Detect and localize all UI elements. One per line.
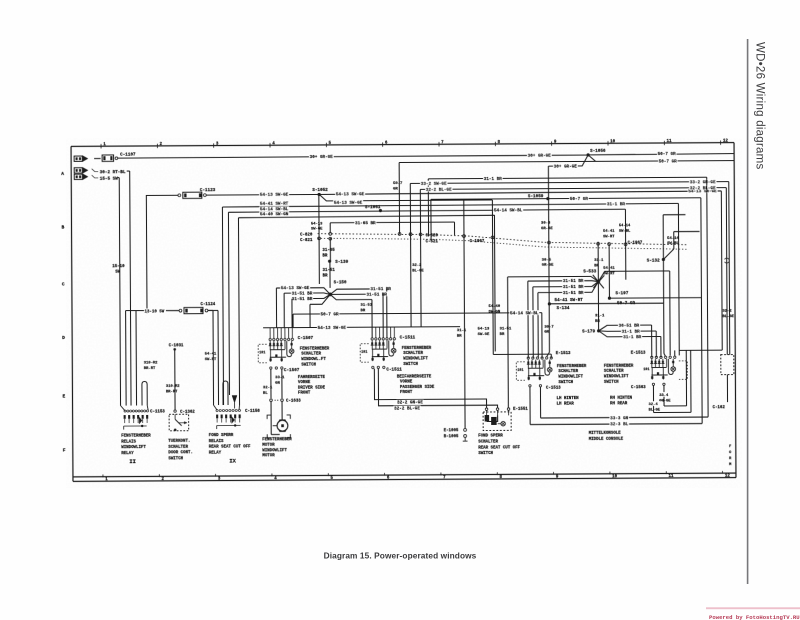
- svg-text:C-1153: C-1153: [150, 411, 165, 415]
- svg-text:310-R2: 310-R2: [166, 385, 180, 389]
- wire 15-5 SW: [100, 176, 121, 405]
- svg-text:30-2 RT-BL: 30-2 RT-BL: [100, 170, 126, 175]
- wire 31-1 BR long vertical: [456, 199, 467, 429]
- rear seat relay IX contact set: [216, 414, 241, 429]
- window motor text: [262, 438, 292, 458]
- svg-text:54-41 SW-RT: 54-41 SW-RT: [260, 202, 289, 207]
- FORD vertical marking: [729, 445, 732, 467]
- wire 50-7 GR drop at x 400: [393, 162, 403, 233]
- svg-text:SCHALTER: SCHALTER: [558, 370, 578, 374]
- svg-text:SW-RT: SW-RT: [205, 358, 217, 362]
- svg-text:GR-GE: GR-GE: [542, 264, 554, 268]
- svg-text:C-1507: C-1507: [298, 336, 314, 341]
- svg-text:SW-RT: SW-RT: [603, 235, 615, 239]
- svg-text:C-1124: C-1124: [200, 303, 215, 307]
- LH rear switch pins E-1513: [527, 313, 571, 360]
- svg-text:B: B: [62, 224, 65, 230]
- svg-text:WINDOWLIFT: WINDOWLIFT: [604, 375, 629, 379]
- svg-text:54-13 SW-GE: 54-13 SW-GE: [260, 193, 289, 198]
- svg-text:31-1: 31-1: [594, 259, 604, 263]
- svg-text:C-820: C-820: [426, 234, 439, 238]
- splice junction S-150: [328, 281, 347, 297]
- svg-text:BL-GE: BL-GE: [649, 408, 661, 412]
- svg-text:FENSTERHEBER: FENSTERHEBER: [557, 365, 587, 369]
- svg-text:E-1513: E-1513: [631, 352, 646, 356]
- svg-text:D: D: [62, 335, 65, 341]
- svg-text:10: 10: [610, 140, 616, 144]
- svg-text:FRONT: FRONT: [400, 391, 413, 395]
- svg-text:32-2 BL-GE: 32-2 BL-GE: [690, 186, 716, 191]
- svg-text:C-162: C-162: [713, 406, 726, 410]
- switch C-1511 name text: [402, 347, 432, 367]
- svg-text:WINDOWLIFT: WINDOWLIFT: [262, 449, 287, 453]
- wire 54-13 SW-GE right corner to RH: [679, 349, 722, 351]
- windowlift relay II contact set: [124, 415, 149, 430]
- svg-text:54-14: 54-14: [619, 224, 631, 228]
- svg-text:BR: BR: [322, 254, 327, 258]
- svg-text:50-7 GR: 50-7 GR: [570, 197, 588, 202]
- wire 54-41 SW-RT / 31-1 BR bus: [222, 198, 679, 405]
- svg-text:BR: BR: [323, 274, 328, 278]
- svg-text:DRIVER SIDE: DRIVER SIDE: [298, 386, 326, 390]
- svg-text:30-5: 30-5: [542, 258, 552, 262]
- RH rear switch body: [650, 359, 675, 380]
- wire 50-7 GR middle: [293, 310, 542, 359]
- svg-text:E-1005: E-1005: [444, 429, 459, 433]
- switch C-1507 dashed harness bracket: [258, 344, 267, 363]
- svg-text:FENSTERHEBER: FENSTERHEBER: [300, 347, 330, 351]
- svg-text:31-65 BR: 31-65 BR: [355, 221, 376, 226]
- wire to fuse C-1123: [146, 195, 178, 313]
- in-line connectors C-820 C-821: [300, 232, 332, 243]
- svg-text:BR: BR: [595, 320, 600, 324]
- label 54-41 SW-RT on vertical: [603, 230, 615, 239]
- svg-text:101: 101: [259, 351, 265, 355]
- terminal E-1005 B-1005: [444, 428, 468, 441]
- connector label C-1511: [400, 336, 416, 341]
- switch C-1511 dashed harness bracket: [360, 344, 369, 363]
- wire 13-10 SW with fuse C-1124: [126, 303, 219, 405]
- wire 54-13 SW-GE fan left 1: [276, 285, 330, 328]
- bulkhead dotted connector row upper: [318, 232, 688, 247]
- RH rear switch name text: [604, 365, 634, 385]
- svg-text:33-4: 33-4: [659, 394, 669, 398]
- svg-text:32-2: 32-2: [412, 264, 422, 268]
- rear cutoff switch body: [483, 410, 511, 430]
- svg-text:S-197: S-197: [615, 291, 628, 296]
- wire 54-13 SW-GE right of S-1052: [319, 188, 722, 352]
- svg-text:30+ GR-GE: 30+ GR-GE: [554, 165, 578, 170]
- svg-text:MITTELKONSOLE: MITTELKONSOLE: [589, 432, 622, 436]
- svg-text:S-134: S-134: [556, 306, 569, 311]
- svg-text:FRONT: FRONT: [298, 392, 311, 396]
- door contact switch body dashed: [169, 414, 189, 431]
- wire 31-51 BR vertical: [323, 261, 336, 288]
- svg-text:SCHALTER: SCHALTER: [403, 352, 423, 356]
- svg-text:31-51: 31-51: [323, 269, 336, 273]
- svg-text:33-2 GN-GE: 33-2 GN-GE: [690, 180, 716, 185]
- wire 31-51 BR S-533 fan 3: [538, 282, 599, 358]
- window switch C-1511 pins bottom: [372, 366, 403, 372]
- left grid row letters A-F: [61, 171, 66, 454]
- connector C-1031 splice: [169, 344, 185, 409]
- window switch C-1507 pins bottom: [270, 367, 300, 373]
- svg-text:BR-RT: BR-RT: [144, 367, 156, 371]
- wire 31-51 BR fan right lower: [330, 294, 373, 338]
- svg-text:32-3 BL: 32-3 BL: [610, 422, 628, 427]
- svg-text:SW-GE: SW-GE: [478, 333, 490, 337]
- wire 30+ GR-GE top bus: [118, 152, 588, 161]
- rear cutoff switch text: [478, 435, 520, 457]
- splice S-132 with diagonal: [646, 215, 700, 304]
- svg-text:31-51 BR: 31-51 BR: [366, 292, 387, 297]
- svg-text:SWITCH: SWITCH: [478, 452, 493, 456]
- svg-text:TUERKONT.: TUERKONT.: [168, 440, 190, 444]
- relay II roman numeral: [129, 459, 136, 465]
- wire 50-7 GR with splice S-1059: [431, 193, 701, 241]
- page edge divider line: [747, 39, 749, 584]
- wire 54-40 SW-GN vertical right: [488, 305, 500, 314]
- svg-text:31-1 BR: 31-1 BR: [484, 177, 502, 182]
- svg-text:36-51 BR: 36-51 BR: [619, 324, 640, 329]
- svg-text:32-4: 32-4: [649, 403, 659, 407]
- switch C-1507 name text: [300, 347, 330, 367]
- svg-text:54-13 SW-GE: 54-13 SW-GE: [334, 201, 363, 206]
- wire 54-13 SW-GE to splice S-1052: [206, 191, 319, 198]
- wire 31-51 BR vertical feed: [500, 327, 512, 336]
- svg-text:C-1158: C-1158: [245, 410, 260, 414]
- svg-text:SW: SW: [115, 270, 120, 274]
- svg-text:S-1059: S-1059: [528, 194, 544, 199]
- svg-text:SCHALTER: SCHALTER: [301, 353, 321, 357]
- wire 33-4 GN-GE loop: [658, 350, 686, 406]
- svg-text:SW-GE: SW-GE: [311, 228, 323, 232]
- svg-text:WINDOWLIFT: WINDOWLIFT: [121, 446, 146, 450]
- svg-text:101: 101: [643, 368, 649, 372]
- svg-text:A: A: [61, 171, 64, 177]
- svg-text:BL: BL: [263, 392, 268, 396]
- svg-text:101: 101: [361, 350, 367, 354]
- svg-text:S-533: S-533: [583, 269, 596, 274]
- relay IX roman numeral: [229, 458, 236, 464]
- svg-text:54-14 SW-BL: 54-14 SW-BL: [510, 311, 539, 316]
- svg-text:S-139: S-139: [335, 260, 348, 265]
- svg-text:SWITCH: SWITCH: [558, 381, 573, 385]
- svg-text:30-7: 30-7: [544, 325, 554, 329]
- splice S-179 fan: [582, 323, 661, 358]
- windowlift relay II pin row C-1153: [124, 410, 165, 415]
- svg-text:VORNE: VORNE: [298, 381, 311, 385]
- svg-text:FOND SPERR: FOND SPERR: [209, 434, 234, 438]
- door contact switch text: [168, 440, 193, 462]
- svg-text:C-821: C-821: [300, 239, 313, 243]
- svg-text:WINDOWLIFT: WINDOWLIFT: [403, 357, 428, 361]
- svg-text:SW-BL: SW-BL: [619, 229, 631, 233]
- in-line connectors C-820 C-521 middle: [398, 232, 438, 244]
- svg-text:WD•26 Wiring diagrams: WD•26 Wiring diagrams: [754, 42, 766, 170]
- LH rear switch name text: [557, 365, 587, 385]
- svg-text:RELAIS: RELAIS: [121, 440, 136, 444]
- power feed connector arrow 1: [74, 156, 101, 162]
- svg-text:F: F: [729, 445, 731, 449]
- svg-text:FENSTERHEBER: FENSTERHEBER: [121, 434, 151, 438]
- svg-text:GN: GN: [275, 381, 280, 385]
- svg-text:10: 10: [612, 475, 618, 479]
- driver side location text: [298, 376, 326, 396]
- rear seat relay IX pin row C-1158: [216, 409, 260, 414]
- fuse C-1123: [178, 188, 216, 199]
- svg-text:31-51 BR: 31-51 BR: [563, 291, 584, 296]
- svg-text:REAR SEAT CUT OFF: REAR SEAT CUT OFF: [478, 446, 520, 450]
- bottom ruler scale numbers 1-12: [103, 471, 730, 482]
- LH rear switch dashed bracket: [516, 362, 525, 381]
- svg-text:E-1551: E-1551: [513, 408, 528, 412]
- inline connector on 32-2 wire: [725, 258, 729, 263]
- in-line connector C-1967 right: [624, 241, 643, 245]
- svg-text:BL-GE: BL-GE: [412, 269, 424, 273]
- svg-text:31-51: 31-51: [500, 327, 512, 331]
- wire 54-13 SW-GE lower branch: [319, 193, 493, 355]
- drawing frame border: [71, 143, 736, 482]
- RH rear switch feed wire: [674, 350, 676, 356]
- svg-text:31-51 BR: 31-51 BR: [292, 297, 313, 302]
- label 310-R2 BR-RT lower: [166, 385, 180, 394]
- svg-text:12: 12: [725, 475, 731, 479]
- wire 30+ GR-GE branch to vertical: [548, 155, 588, 170]
- svg-text:GR: GR: [544, 331, 549, 335]
- svg-text:S-150: S-150: [334, 281, 347, 286]
- wire 31-65 BR: [330, 220, 454, 237]
- svg-text:FENSTERHEBER: FENSTERHEBER: [604, 365, 634, 369]
- power feed connector arrow 2: [74, 167, 98, 173]
- svg-text:32-2 GN-GE: 32-2 GN-GE: [397, 401, 423, 406]
- wire 54-41 SW-RT from S-533: [598, 266, 670, 355]
- label 32-2 BL-GE on left verticals: [412, 264, 424, 273]
- svg-text:54-41: 54-41: [603, 230, 615, 234]
- wire 31-1 BR bus: [428, 175, 707, 237]
- svg-text:Powered by FotoHostingTV.RU: Powered by FotoHostingTV.RU: [709, 614, 800, 620]
- svg-text:WINDOWLIFT: WINDOWLIFT: [558, 375, 583, 379]
- svg-text:101: 101: [517, 369, 523, 373]
- svg-text:BEIFAHRERSEITE: BEIFAHRERSEITE: [397, 375, 432, 379]
- splice S-533 junction: [583, 242, 605, 331]
- LH rear switch pins bottom C-1513: [529, 384, 561, 390]
- svg-text:SW-GN: SW-GN: [489, 310, 501, 314]
- svg-text:S-1061: S-1061: [365, 205, 381, 210]
- wire 54-13 SW-GE switch bus: [263, 324, 460, 331]
- svg-text:50-7 GR: 50-7 GR: [321, 312, 339, 317]
- relay IX feed funnel: [213, 310, 240, 410]
- svg-text:F: F: [63, 447, 66, 453]
- window switch C-1507 body: [269, 341, 294, 362]
- svg-text:S-1052: S-1052: [312, 188, 328, 193]
- splice S-1056: [586, 149, 606, 157]
- svg-text:32-2: 32-2: [723, 310, 733, 314]
- RH rear switch pins E-1513: [631, 352, 676, 359]
- connector C-162 dashed: [712, 310, 735, 410]
- label 15-10 SW on vertical wire: [112, 265, 125, 274]
- window switch C-1507 pins top: [269, 328, 294, 341]
- svg-text:33-3 GN: 33-3 GN: [610, 416, 628, 421]
- svg-text:C-1507: C-1507: [284, 368, 300, 373]
- splice S-1061: [365, 205, 382, 212]
- svg-text:31-1 BR: 31-1 BR: [622, 330, 640, 335]
- wire fan left 4: [310, 294, 330, 327]
- svg-text:310-R2: 310-R2: [144, 361, 158, 365]
- svg-text:54-14: 54-14: [667, 237, 679, 241]
- svg-text:BR: BR: [457, 334, 462, 338]
- svg-text:C-1031: C-1031: [169, 344, 184, 348]
- svg-text:33-2 SW-GE: 33-2 SW-GE: [421, 182, 447, 187]
- wire 32-4 BL-GE loop: [648, 350, 691, 412]
- wire 33-3 GN console: [539, 177, 708, 421]
- svg-text:30+ GR-GE: 30+ GR-GE: [310, 155, 334, 160]
- svg-text:MOTOR: MOTOR: [262, 444, 275, 448]
- svg-text:54-40: 54-40: [488, 305, 500, 309]
- wire 30-3 GR-GE long vertical: [541, 166, 555, 357]
- wire 32-1 BL to motor: [263, 369, 282, 398]
- svg-text:31-51: 31-51: [360, 304, 372, 308]
- svg-text:33-1: 33-1: [275, 376, 285, 380]
- window switch C-1511 pins top: [371, 327, 396, 340]
- svg-text:C: C: [62, 281, 65, 287]
- wire 31-1 BR vertical to S-179: [595, 314, 605, 323]
- relay IX feed arrow: [232, 395, 237, 408]
- label 54-14 SW-BL on vertical: [619, 224, 631, 233]
- svg-text:SW-BL: SW-BL: [667, 242, 679, 246]
- svg-text:BR: BR: [500, 333, 505, 337]
- svg-text:LH REAR: LH REAR: [557, 402, 575, 406]
- svg-text:M: M: [729, 463, 731, 467]
- wire to LH rear switch top: [493, 354, 551, 358]
- svg-text:FOND SPERR: FOND SPERR: [478, 435, 503, 439]
- svg-text:C-1563: C-1563: [631, 386, 646, 390]
- svg-text:30-3: 30-3: [541, 222, 551, 226]
- svg-text:RELAY: RELAY: [121, 452, 134, 456]
- fuse C-1107: [102, 153, 136, 162]
- svg-text:RH REAR: RH REAR: [610, 402, 628, 406]
- svg-text:32-1: 32-1: [263, 386, 273, 390]
- wire 50-7 GR right of S-1056: [588, 151, 734, 158]
- wire 31-51 BR fan right middle: [330, 292, 388, 339]
- wire 31-51 BR S-533 fan 0: [508, 276, 599, 407]
- svg-text:WINDOWL.FT: WINDOWL.FT: [301, 358, 326, 362]
- svg-text:RELAY: RELAY: [209, 451, 222, 455]
- svg-text:B-1005: B-1005: [444, 435, 459, 439]
- svg-text:13-10 SW: 13-10 SW: [144, 310, 164, 314]
- wire 33-2 SW-GE / 33-2 GN-GE bus: [410, 179, 730, 356]
- svg-text:IX: IX: [229, 458, 236, 464]
- svg-text:31-51 BR: 31-51 BR: [563, 285, 584, 290]
- wire 31-51 BR fan right upper: [330, 286, 392, 338]
- label 310-R2 BR-RT upper: [144, 361, 158, 370]
- svg-text:GR-GE: GR-GE: [541, 227, 553, 231]
- svg-text:S-1056: S-1056: [590, 149, 606, 154]
- connector label C-1507: [298, 336, 314, 341]
- svg-text:50-7: 50-7: [393, 182, 403, 186]
- svg-text:SWITCH: SWITCH: [604, 381, 619, 385]
- wire 54-40 SW-GN bus: [238, 210, 495, 405]
- wire 32-2 BL-GE bus: [420, 185, 727, 356]
- svg-text:MIDDLE CONSOLE: MIDDLE CONSOLE: [589, 438, 624, 442]
- svg-text:54-13 SW-GE: 54-13 SW-GE: [318, 326, 347, 331]
- wire 31-51 BR S-533 fan 2: [533, 282, 599, 358]
- svg-text:C-1123: C-1123: [200, 188, 216, 193]
- LH rear switch body: [527, 360, 552, 381]
- svg-text:C-1513: C-1513: [546, 386, 561, 390]
- wire 32-2 GN-GE from passenger switch: [374, 368, 486, 408]
- svg-text:11: 11: [668, 475, 674, 479]
- svg-text:C-1967: C-1967: [470, 240, 485, 244]
- window switch C-1511 body: [371, 340, 396, 361]
- svg-text:RH HINTEN: RH HINTEN: [610, 397, 633, 401]
- svg-text:SWITCH: SWITCH: [403, 363, 418, 367]
- svg-text:SCHALTER: SCHALTER: [168, 446, 188, 450]
- passenger side location text: [397, 375, 435, 395]
- watermark band: [706, 607, 800, 609]
- svg-text:54-13 SW-GE: 54-13 SW-GE: [336, 192, 365, 197]
- window motor M body: [271, 402, 288, 435]
- svg-text:15-5 SW: 15-5 SW: [100, 176, 118, 181]
- svg-text:C-1511: C-1511: [386, 367, 402, 372]
- wire from S-1052 down: [311, 194, 324, 284]
- svg-text:31-51 BR: 31-51 BR: [563, 279, 584, 284]
- door contact switch pin: [174, 410, 196, 415]
- wire 30-2 RT-BL: [100, 170, 131, 406]
- svg-text:S-132: S-132: [647, 258, 660, 263]
- wire 31-65 BR vertical below connectors: [322, 238, 335, 261]
- svg-text:54-41 SW-RT: 54-41 SW-RT: [554, 298, 583, 303]
- wire 54-13 SW-GE vertical label: [478, 327, 490, 336]
- svg-text:S-179: S-179: [582, 329, 595, 334]
- svg-text:E-1513: E-1513: [556, 352, 571, 356]
- svg-text:31-1: 31-1: [595, 314, 605, 318]
- wire 32-3 BL console: [529, 198, 702, 428]
- svg-text:54-41: 54-41: [205, 353, 217, 357]
- svg-text:PASSENGER SIDE: PASSENGER SIDE: [400, 386, 435, 390]
- LH rear switch bottom wires: [530, 387, 541, 425]
- LH rear switch feed wires: [527, 356, 529, 358]
- splice S-197 and wire 50-7 GR: [608, 243, 702, 306]
- svg-text:BR: BR: [594, 264, 599, 268]
- svg-text:SWITCH: SWITCH: [168, 457, 183, 461]
- svg-text:54-40 SW-GN: 54-40 SW-GN: [260, 212, 289, 217]
- svg-text:30+ GR-GE: 30+ GR-GE: [528, 154, 552, 159]
- RH rear location text: [610, 397, 633, 407]
- wire 54-14 SW-BL bus: [228, 205, 626, 395]
- RH rear switch dashed bracket: [643, 361, 687, 380]
- svg-text:31-1 BR: 31-1 BR: [607, 202, 625, 207]
- svg-text:50-7 GR: 50-7 GR: [658, 152, 676, 157]
- wire 31-51 BR S-533 fan 1: [528, 278, 599, 358]
- svg-text:SWITCH: SWITCH: [301, 363, 316, 367]
- svg-text:C-1107: C-1107: [120, 153, 136, 158]
- svg-text:SCHALTER: SCHALTER: [604, 370, 624, 374]
- svg-text:FENSTERHEBER: FENSTERHEBER: [262, 438, 292, 442]
- console location text: [589, 432, 624, 442]
- RH rear switch pins bottom C-1563: [631, 383, 665, 390]
- svg-text:54-13: 54-13: [478, 327, 490, 331]
- svg-text:MOTOR: MOTOR: [262, 454, 275, 458]
- svg-text:RELAIS: RELAIS: [209, 440, 224, 444]
- svg-text:FAHRERSEITE: FAHRERSEITE: [298, 376, 326, 380]
- svg-text:C-820: C-820: [300, 233, 313, 237]
- svg-text:31-1: 31-1: [457, 329, 467, 333]
- bulkhead dotted connector row lower: [318, 236, 688, 251]
- wire 50-7 GR second branch: [399, 154, 734, 166]
- svg-text:VORNE: VORNE: [400, 381, 413, 385]
- wire 54-14 SW-BL label middle: [505, 310, 543, 316]
